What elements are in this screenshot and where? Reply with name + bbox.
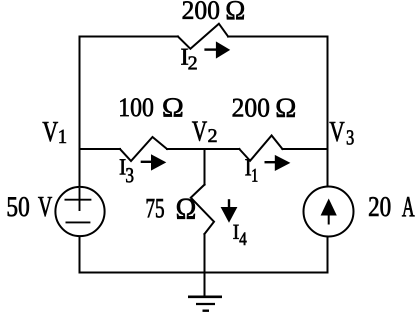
ground xyxy=(188,297,222,311)
value label 20 A xyxy=(369,197,390,216)
current arrow I3 xyxy=(141,154,167,170)
current arrow I2 xyxy=(204,41,230,58)
current label I3 xyxy=(120,159,126,174)
wire 75 ohm to bottom rail xyxy=(204,234,206,273)
current arrow I1 xyxy=(265,155,291,171)
current label I2 xyxy=(181,49,188,65)
ground stem xyxy=(204,273,206,297)
wire middle rail center segment (node V2) xyxy=(167,148,239,150)
node label V1 xyxy=(43,122,58,141)
value label 200 ohm (middle) xyxy=(233,99,269,117)
wire middle rail right segment (node V3) xyxy=(282,148,327,150)
value label 100 ohm xyxy=(120,98,153,116)
wire right rail xyxy=(327,37,329,273)
voltage source 50V xyxy=(55,187,104,236)
value label 200 ohm (top) xyxy=(183,1,219,19)
node label V3 xyxy=(330,122,345,141)
wire left rail xyxy=(79,37,81,273)
wire bottom rail xyxy=(80,272,328,274)
resistor 200 ohm middle (zigzag) xyxy=(239,136,282,161)
current arrow I4 (downward) xyxy=(221,199,238,223)
wire middle rail left segment (node V1) xyxy=(80,148,121,150)
current label I4 xyxy=(233,225,238,239)
resistor 200 ohm top (zigzag) xyxy=(178,24,228,49)
node label V2 xyxy=(192,122,207,141)
wire top rail left segment xyxy=(80,36,178,38)
resistor 75 ohm (vertical zigzag) xyxy=(191,185,214,234)
current label I1 xyxy=(245,159,251,175)
current source 20A (circle with up arrow) xyxy=(304,187,354,237)
resistor 100 ohm (zigzag) xyxy=(120,137,167,161)
value label 50 V xyxy=(8,197,29,216)
wire top rail right segment xyxy=(228,36,327,38)
wire V2 drop xyxy=(204,149,206,185)
value label 75 ohm xyxy=(147,199,164,218)
